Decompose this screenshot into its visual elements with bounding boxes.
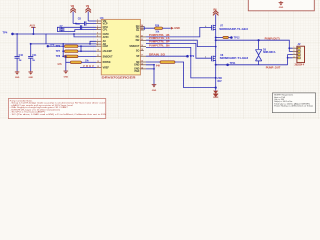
IC right pin names (129, 25, 140, 73)
resistor R22 (65, 46, 97, 52)
power port VM at U7 (213, 10, 219, 26)
wire (13, 34, 47, 44)
note box GND top right (248, 0, 314, 11)
svg-text:GND: GND (174, 27, 180, 30)
svg-text:4: 4 (97, 27, 98, 30)
svg-text:nHIZ: nHIZ (103, 45, 109, 48)
svg-text:TP8: TP8 (56, 55, 61, 58)
text note MOSFET Requirements (272, 93, 315, 113)
wire GND pins (146, 65, 154, 86)
svg-text:GND: GND (279, 7, 284, 9)
svg-text:GND: GND (64, 76, 69, 78)
svg-text:GND: GND (134, 64, 140, 67)
ground (64, 62, 69, 78)
resistor rail wire (62, 44, 64, 57)
resistor R26 (155, 25, 171, 33)
svg-text:GL: GL (136, 29, 140, 32)
text note Pump Controller Notes (8, 99, 106, 119)
capacitor C10 (15, 34, 24, 71)
global label GND (171, 27, 180, 30)
ground in box (280, 1, 282, 3)
svg-text:14: 14 (141, 66, 143, 69)
svg-text:GND: GND (29, 77, 34, 79)
svg-text:PUMP_OUT: PUMP_OUT (266, 66, 281, 69)
svg-text:SMBJ48CA: SMBJ48CA (263, 51, 276, 54)
wire bus to pin y44.1 (63, 43, 96, 45)
ground (152, 85, 157, 92)
svg-text:1: 1 (294, 47, 295, 49)
resistor R27 (146, 61, 216, 88)
svg-text:SO: SO (136, 49, 140, 52)
test point TP4 (3, 30, 14, 35)
svg-text:AV50: AV50 (103, 36, 109, 39)
svg-text:SIR680ADP-T1-GE3: SIR680ADP-T1-GE3 (220, 57, 249, 60)
power port VM 2 (85, 6, 91, 21)
wire (31, 43, 64, 45)
svg-text:21: 21 (141, 35, 143, 37)
ground (15, 71, 20, 79)
zener diode ZD6 (213, 77, 222, 97)
ground (28, 71, 33, 79)
wire GH/SH/GL tie (144, 26, 154, 30)
transistor U8 (212, 56, 216, 62)
svg-text:TP4: TP4 (3, 30, 8, 34)
wire connector top pins (289, 48, 292, 51)
net label PUMPCTRL_HS (146, 25, 212, 37)
svg-text:15: 15 (141, 63, 143, 65)
wire pin y41.3 (90, 41, 96, 44)
svg-text:TP12: TP12 (234, 36, 241, 39)
IC left pin stubs (96, 21, 101, 68)
svg-text:2: 2 (294, 50, 295, 52)
svg-text:C11: C11 (32, 54, 37, 57)
net label VREF (80, 65, 96, 68)
svg-text:VREF: VREF (103, 66, 110, 69)
test point TP6 (47, 44, 64, 48)
svg-text:AUX: AUX (30, 23, 36, 27)
svg-text:9: 9 (97, 45, 98, 47)
svg-text:16: 16 (141, 61, 143, 63)
svg-text:30V: 30V (217, 80, 222, 83)
wire CPH loop (57, 27, 96, 31)
resistor R24 (57, 56, 96, 66)
net label PUMPCTRL_SN (146, 45, 217, 79)
svg-text:11: 11 (97, 55, 99, 57)
test point TP11 (226, 62, 236, 66)
net label PUMPCTRL_LS (146, 37, 217, 47)
svg-text:282834-4: 282834-4 (295, 64, 305, 67)
power port AUX (30, 23, 36, 35)
resistor R21 (65, 45, 97, 48)
svg-text:10: 10 (97, 50, 99, 52)
svg-text:C10: C10 (19, 54, 24, 57)
IC right pin stubs (140, 26, 146, 69)
svg-text:SNSOUT: SNSOUT (129, 45, 140, 48)
svg-text:19: 19 (141, 45, 143, 47)
transistor U7 (212, 25, 216, 31)
svg-text:IN2: IN2 (136, 39, 140, 42)
svg-text:22: 22 (141, 29, 143, 31)
capacitor C11 (28, 44, 37, 71)
svg-text:4: 4 (205, 25, 206, 28)
svg-text:4.7k: 4.7k (57, 63, 62, 66)
wire PUMP(OUT) (215, 39, 217, 41)
svg-text:17: 17 (141, 55, 143, 57)
TVS diode D5 (256, 40, 262, 65)
wire to pin y36.9 (74, 34, 96, 37)
wire connector bottom pins (288, 55, 293, 65)
net label PUMPCTRL_SP (146, 41, 211, 59)
svg-text:TP7: TP7 (56, 50, 61, 53)
wire VM to pin (88, 20, 96, 22)
svg-text:TP11: TP11 (230, 62, 236, 65)
svg-text:CPL: CPL (103, 29, 108, 32)
svg-text:GND: GND (152, 90, 157, 92)
svg-text:IDRIVE: IDRIVE (103, 61, 111, 64)
IC left pin names (103, 20, 114, 70)
resistor R23 (65, 55, 97, 58)
IC U4 DRV8701 (100, 16, 141, 79)
capacitor C8 (73, 17, 96, 25)
gate pulldown resistor R28 / test point TP12 (215, 36, 240, 39)
svg-text:- SC (Pin drive, LOAD and nGNI: - SC (Pin drive, LOAD and nGNI) x D in I… (10, 113, 106, 116)
wire U8 source down (215, 60, 217, 87)
svg-text:SNSOUT: SNSOUT (103, 55, 114, 58)
svg-text:20: 20 (141, 39, 143, 41)
wire PUMP_OUT low (215, 64, 217, 66)
wire to pin y34 (46, 33, 96, 35)
svg-text:18: 18 (141, 49, 143, 51)
svg-text:DRV8701ERGER: DRV8701ERGER (102, 76, 136, 79)
net label DRAIN_SO (146, 54, 195, 59)
svg-text:nSLEEP: nSLEEP (103, 50, 113, 53)
power port VM (70, 6, 76, 23)
svg-text:12: 12 (97, 61, 99, 63)
IC left pin numbers (97, 20, 99, 69)
svg-text:7: 7 (97, 40, 98, 42)
svg-text:TP6: TP6 (50, 44, 55, 47)
svg-text:PUMP (OUT): PUMP (OUT) (265, 38, 280, 41)
svg-text:5: 5 (97, 33, 98, 35)
svg-text:R26: R26 (155, 25, 160, 27)
svg-text:SP: SP (136, 55, 140, 58)
svg-text:TP9: TP9 (190, 55, 195, 58)
svg-text:TP5: TP5 (56, 45, 61, 48)
svg-text:3: 3 (294, 53, 295, 55)
svg-text:VCP: VCP (103, 22, 108, 25)
capacitor C9 (75, 23, 82, 30)
connector J2 (293, 42, 305, 66)
svg-text:PAD: PAD (135, 70, 140, 73)
svg-text:2: 2 (97, 22, 98, 24)
node vertical (215, 30, 217, 57)
svg-text:Power Rating >= 40W (Check at: Power Rating >= 40W (Check at Temp) (274, 105, 313, 108)
capacitor C7 (59, 26, 64, 32)
svg-text:GND: GND (15, 77, 20, 79)
svg-text:2: 2 (205, 57, 206, 59)
IC right pin numbers (141, 24, 143, 70)
svg-text:6: 6 (97, 35, 98, 37)
svg-text:13: 13 (97, 66, 99, 68)
svg-text:SIR680ADP-T1-GE3: SIR680ADP-T1-GE3 (219, 28, 248, 31)
